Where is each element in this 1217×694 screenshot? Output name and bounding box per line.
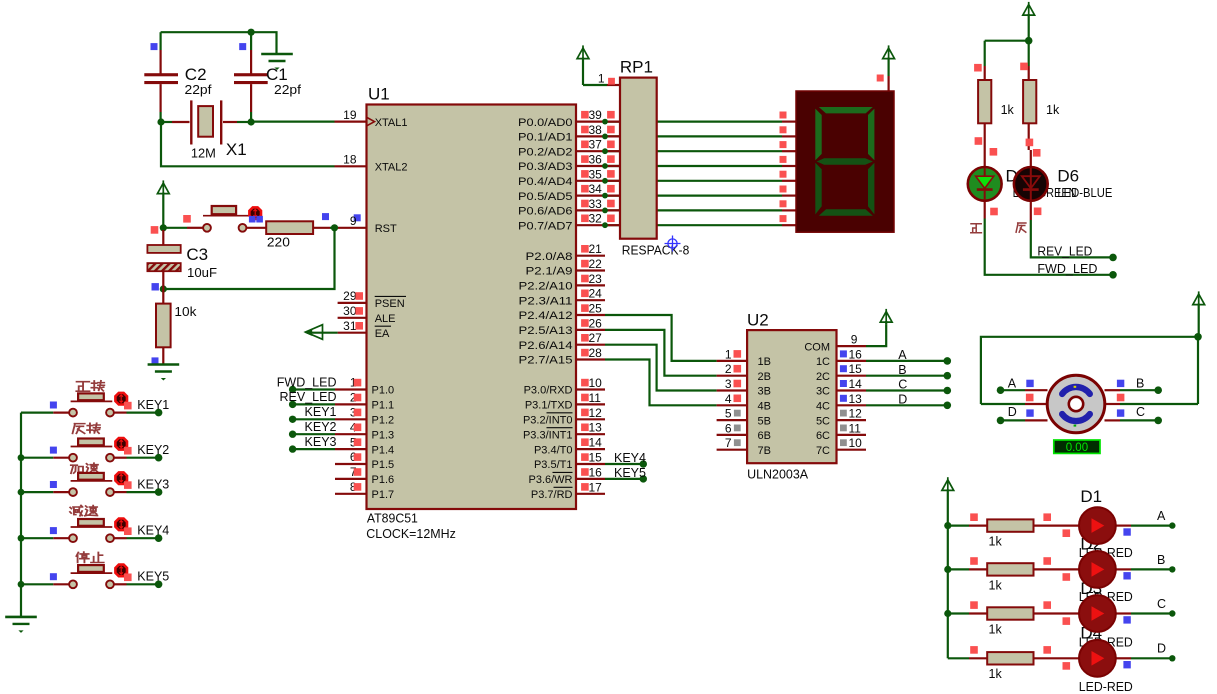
red marker KEY4 xyxy=(124,527,132,535)
svg-text:P2.6/A14: P2.6/A14 xyxy=(519,340,573,352)
svg-text:4C: 4C xyxy=(816,401,830,413)
svg-text:B: B xyxy=(1157,553,1165,567)
svg-text:12M: 12M xyxy=(191,147,216,161)
svg-text:KEY5: KEY5 xyxy=(614,466,646,480)
chip U1 body xyxy=(367,105,577,510)
svg-text:P2.4/A12: P2.4/A12 xyxy=(519,310,573,322)
label button 2 (chinese) xyxy=(73,424,85,434)
svg-text:U2: U2 xyxy=(747,311,769,330)
wire: motor common right xyxy=(1105,403,1120,405)
svg-text:14: 14 xyxy=(589,436,603,450)
chip U2 body xyxy=(747,330,836,463)
node: RST junction at C3 top xyxy=(160,224,167,231)
svg-text:P3.7/RD: P3.7/RD xyxy=(531,489,573,501)
7-segment digit xyxy=(819,107,873,113)
svg-text:EA: EA xyxy=(375,328,390,340)
svg-text:10: 10 xyxy=(589,376,603,390)
resistor 1k (left, D5) xyxy=(984,41,986,66)
blue marker row B xyxy=(1123,572,1130,579)
node: A wire end (motor) xyxy=(997,386,1005,394)
wires: P1.0-P1.4 net stubs xyxy=(293,388,335,390)
wire: LED to node A xyxy=(1116,524,1131,526)
svg-text:C3: C3 xyxy=(186,245,208,264)
wire: motor phase C xyxy=(1105,419,1121,421)
power symbol +5V (RP1) xyxy=(577,48,589,59)
svg-text:38: 38 xyxy=(589,123,603,137)
node: bus junction row B xyxy=(944,566,951,573)
svg-text:7C: 7C xyxy=(816,445,830,457)
pushbutton KEY4 xyxy=(21,537,53,539)
power symbol +5V (motor) xyxy=(1193,294,1205,305)
XTAL1 clock input mark xyxy=(367,118,375,126)
wire: P2.7 to U2 pin 4 xyxy=(605,360,717,406)
wire: motor phase D xyxy=(1025,419,1048,421)
node: P0.6 junction xyxy=(602,208,608,214)
node: P0.7 junction xyxy=(602,222,608,228)
svg-text:C: C xyxy=(1136,405,1145,419)
red marker reset button left pin xyxy=(183,215,191,223)
wire: RST junction down to C3 bottom xyxy=(163,228,334,289)
blue marker motor C xyxy=(1117,409,1124,416)
svg-text:15: 15 xyxy=(589,451,603,465)
svg-text:D6: D6 xyxy=(1057,166,1079,185)
label 正 (forward) xyxy=(971,224,982,233)
svg-text:2B: 2B xyxy=(758,371,771,383)
LED D1 (red) xyxy=(1079,507,1116,544)
svg-text:1k: 1k xyxy=(989,667,1003,681)
LED D3 (red) xyxy=(1079,595,1116,632)
wire: LED array supply bus xyxy=(947,494,949,658)
red marker D6 cathode xyxy=(1034,208,1042,216)
svg-text:KEY1: KEY1 xyxy=(305,405,337,419)
red marker RP1 pin1 xyxy=(608,78,615,85)
svg-text:P0.6/AD6: P0.6/AD6 xyxy=(518,206,573,218)
svg-text:KEY2: KEY2 xyxy=(305,420,337,434)
red marker KEY1 xyxy=(124,402,132,410)
node: B wire end (LED row) xyxy=(1169,566,1175,572)
blue marker motor D xyxy=(1026,409,1033,416)
blue marker C3 bottom xyxy=(152,283,159,290)
svg-text:22pf: 22pf xyxy=(274,83,302,97)
wire: U2 COM to +5V xyxy=(837,345,867,347)
svg-text:1C: 1C xyxy=(816,356,830,368)
svg-text:PSEN: PSEN xyxy=(375,298,405,310)
svg-text:16: 16 xyxy=(849,347,863,361)
ground (below 10k) xyxy=(148,363,180,366)
wire: EA terminal arrow xyxy=(338,332,367,334)
wire: +5V to LED resistors xyxy=(1023,5,1035,16)
reset button actuator icon xyxy=(249,207,261,219)
origin marker (blue crosshair) xyxy=(665,236,681,252)
svg-text:23: 23 xyxy=(589,272,603,286)
resistor R? 220 xyxy=(266,221,313,234)
svg-text:1: 1 xyxy=(598,72,605,86)
wire: LED to node D xyxy=(1116,657,1131,659)
svg-text:P1.5: P1.5 xyxy=(372,459,395,471)
node: P0.5 junction xyxy=(602,193,608,199)
power symbol +5V (display) xyxy=(883,48,895,59)
svg-text:XTAL2: XTAL2 xyxy=(375,162,408,174)
blue marker 10k bottom xyxy=(152,357,159,364)
svg-text:31: 31 xyxy=(343,319,357,333)
svg-text:11: 11 xyxy=(589,391,602,405)
wire: bus to R row A xyxy=(948,524,969,526)
svg-text:P3.4/T0: P3.4/T0 xyxy=(534,444,573,456)
blue marker C2 pin xyxy=(151,43,158,50)
red marker D5 cathode xyxy=(990,208,998,216)
wire: P2.4 to U2 pin 1 xyxy=(605,315,717,361)
svg-text:3: 3 xyxy=(725,377,732,391)
svg-text:P2.7/A15: P2.7/A15 xyxy=(519,355,573,367)
node: net KEY1 wire end xyxy=(289,416,296,423)
svg-text:CLOCK=12MHz: CLOCK=12MHz xyxy=(366,527,456,541)
svg-text:KEY4: KEY4 xyxy=(614,451,646,465)
svg-text:FWD_LED: FWD_LED xyxy=(1037,262,1097,276)
U2 left pin markers xyxy=(734,350,742,358)
node: A wire end xyxy=(944,357,952,365)
node: button bus junction 3 xyxy=(18,489,25,496)
blue marker row A xyxy=(1123,528,1130,535)
svg-text:P1.6: P1.6 xyxy=(372,474,395,486)
motor speed readout 0.00 xyxy=(1054,440,1100,453)
blue marker motor A xyxy=(1026,380,1033,387)
svg-text:13: 13 xyxy=(849,392,863,406)
node: net KEY3 wire end xyxy=(289,445,296,452)
node: P0.0 junction xyxy=(602,119,608,125)
wire: D5 cathode to FWD_LED xyxy=(985,219,1113,275)
svg-text:P3.0/RXD: P3.0/RXD xyxy=(524,385,573,397)
node: button bus junction 2 xyxy=(18,454,25,461)
U1 right pin markers xyxy=(581,111,589,119)
red markers row B xyxy=(970,557,978,565)
button KEY2 actuator icon xyxy=(115,438,127,450)
svg-text:32: 32 xyxy=(589,212,603,226)
label button 1 (chinese) xyxy=(76,382,89,392)
wire: U2 3C to node C xyxy=(837,389,867,391)
svg-text:C: C xyxy=(898,378,907,392)
svg-text:P2.0/A8: P2.0/A8 xyxy=(526,251,573,263)
wire: bus to R row D xyxy=(948,657,969,659)
svg-text:P1.3: P1.3 xyxy=(372,429,395,441)
svg-text:FWD_LED: FWD_LED xyxy=(277,375,337,389)
wire: bus to R row C xyxy=(948,612,969,614)
svg-text:15: 15 xyxy=(849,362,863,376)
stepper motor body xyxy=(1047,375,1105,433)
svg-text:0.00: 0.00 xyxy=(1066,442,1088,454)
node: A wire end (LED row) xyxy=(1169,522,1175,528)
svg-text:C2: C2 xyxy=(185,65,207,84)
svg-text:2: 2 xyxy=(725,362,732,376)
svg-text:25: 25 xyxy=(589,302,603,316)
U1 left pin markers xyxy=(355,292,363,300)
svg-text:LED-RED: LED-RED xyxy=(1079,680,1133,694)
svg-text:11: 11 xyxy=(849,421,862,435)
red marker KEY3 xyxy=(124,481,132,489)
svg-text:6C: 6C xyxy=(816,430,830,442)
ground (button bus) xyxy=(5,616,37,619)
blue marker KEY1 xyxy=(50,402,57,409)
U2 right pin markers xyxy=(840,350,847,357)
blue markers reset button xyxy=(249,216,256,223)
label button 3 (chinese) xyxy=(71,465,83,473)
svg-text:6: 6 xyxy=(725,421,732,435)
svg-text:X1: X1 xyxy=(226,140,247,159)
wire: P2.6 to U2 pin 3 xyxy=(605,345,717,391)
power symbol +5V (RST) xyxy=(157,183,169,194)
crystal X1 xyxy=(161,121,172,123)
resistor 1k row A xyxy=(987,519,1033,531)
red marker motor common L xyxy=(1026,394,1034,402)
svg-text:KEY2: KEY2 xyxy=(137,443,169,457)
svg-text:U1: U1 xyxy=(368,85,390,104)
red markers row D xyxy=(970,646,978,654)
red markers 1k left xyxy=(974,64,982,72)
wire: net KEY5 on P3.6 xyxy=(605,478,643,480)
svg-text:P3.3/INT1: P3.3/INT1 xyxy=(523,429,573,441)
wire: crystal to XTAL1 pin 19 xyxy=(251,120,334,122)
svg-text:KEY5: KEY5 xyxy=(137,570,169,584)
svg-text:1: 1 xyxy=(725,347,732,361)
node: crystal left junction xyxy=(157,118,164,125)
wire: U2 2C to node B xyxy=(837,375,867,377)
svg-text:1B: 1B xyxy=(758,356,771,368)
svg-text:5C: 5C xyxy=(816,415,830,427)
node: P0.3 junction xyxy=(602,163,608,169)
svg-text:D: D xyxy=(898,393,907,407)
red marker C3 top pin xyxy=(151,226,159,234)
svg-text:29: 29 xyxy=(343,289,357,303)
svg-text:P0.3/AD3: P0.3/AD3 xyxy=(518,161,573,173)
svg-text:10: 10 xyxy=(849,436,863,450)
wire: RP1 pin 1 xyxy=(607,84,620,86)
node: C wire end (LED row) xyxy=(1169,610,1175,616)
wire: C2 top to C1 top and ground xyxy=(161,32,277,53)
svg-text:9: 9 xyxy=(851,333,858,347)
red marker KEY5 xyxy=(124,574,132,582)
svg-text:22pf: 22pf xyxy=(185,83,213,97)
svg-text:P0.1/AD1: P0.1/AD1 xyxy=(518,132,573,144)
blue marker C1 pin xyxy=(239,43,246,50)
node: B wire end xyxy=(944,372,952,380)
svg-text:28: 28 xyxy=(589,346,603,360)
node: P0.1 junction xyxy=(602,134,608,140)
svg-text:18: 18 xyxy=(343,153,357,167)
blue marker KEY5 xyxy=(50,573,57,580)
svg-text:D: D xyxy=(1157,642,1166,656)
wire: motor phase B xyxy=(1105,389,1121,391)
node: C wire end xyxy=(944,387,952,395)
U1 left pin stubs xyxy=(338,302,367,304)
svg-text:7B: 7B xyxy=(758,445,771,457)
svg-text:C1: C1 xyxy=(266,65,288,84)
svg-text:ALE: ALE xyxy=(375,313,396,325)
display pin markers xyxy=(780,112,787,119)
power symbol +5V (U2 COM) xyxy=(880,312,892,323)
node: REV_LED wire end xyxy=(1109,254,1117,262)
svg-text:P1.1: P1.1 xyxy=(372,400,395,412)
svg-text:10uF: 10uF xyxy=(187,266,217,280)
node: net REV_LED wire end xyxy=(289,401,296,408)
svg-text:ULN2003A: ULN2003A xyxy=(747,468,809,482)
svg-text:P2.1/A9: P2.1/A9 xyxy=(526,266,573,278)
svg-text:3C: 3C xyxy=(816,386,830,398)
node: KEY5 wire end xyxy=(640,475,647,482)
wire: U2 1C to node A xyxy=(837,360,867,362)
wire: 220 to RST pin 9 xyxy=(313,227,330,229)
svg-text:P1.7: P1.7 xyxy=(372,489,395,501)
wire: R to LED row C xyxy=(1034,612,1080,614)
button KEY5 actuator icon xyxy=(115,565,127,577)
svg-text:P3.5/T1: P3.5/T1 xyxy=(534,459,573,471)
node: B wire end (motor) xyxy=(1154,386,1162,394)
svg-text:6B: 6B xyxy=(758,430,771,442)
svg-text:P3.2/INT0: P3.2/INT0 xyxy=(523,415,573,427)
svg-text:D: D xyxy=(1008,405,1017,419)
node: KEY3 wire end xyxy=(155,488,163,496)
svg-text:5: 5 xyxy=(725,407,732,421)
resistor 1k row C xyxy=(987,607,1033,619)
node: net FWD_LED wire end xyxy=(289,386,296,393)
svg-text:XTAL1: XTAL1 xyxy=(375,117,408,129)
wire: net KEY4 on P3.5 xyxy=(605,463,643,465)
node: D wire end (motor) xyxy=(997,417,1005,425)
blue marker KEY4 xyxy=(50,527,57,534)
wire: LED to node C xyxy=(1116,612,1131,614)
wire: bus to R row B xyxy=(948,568,969,570)
svg-text:KEY3: KEY3 xyxy=(137,477,169,491)
node: KEY1 wire end xyxy=(155,409,163,417)
svg-text:AT89C51: AT89C51 xyxy=(367,512,418,526)
wire: P2.5 to U2 pin 2 xyxy=(605,330,717,376)
node: net KEY2 wire end xyxy=(289,431,296,438)
svg-text:4B: 4B xyxy=(758,401,771,413)
svg-text:P0.5/AD5: P0.5/AD5 xyxy=(518,191,573,203)
node: crystal right junction xyxy=(248,118,255,125)
node: loop junction at +5V xyxy=(1194,333,1202,341)
red marker KEY2 xyxy=(124,447,132,455)
svg-text:P1.4: P1.4 xyxy=(372,444,395,456)
svg-text:33: 33 xyxy=(589,197,603,211)
wire: D6 cathode to REV_LED xyxy=(1031,220,1113,257)
resistor pack RP1 body xyxy=(620,78,657,239)
svg-text:A: A xyxy=(898,348,907,362)
svg-text:A: A xyxy=(1157,509,1166,523)
svg-text:9: 9 xyxy=(350,214,357,228)
svg-text:P0.0/AD0: P0.0/AD0 xyxy=(518,117,573,129)
svg-text:39: 39 xyxy=(589,108,603,122)
svg-text:B: B xyxy=(1136,377,1144,391)
wire: motor common left xyxy=(1025,403,1047,405)
wire: button supply bus xyxy=(20,413,22,617)
button KEY1 actuator icon xyxy=(115,393,127,405)
svg-text:P0.7/AD7: P0.7/AD7 xyxy=(518,220,573,232)
wire: R to LED row B xyxy=(1034,568,1080,570)
svg-text:1k: 1k xyxy=(1001,103,1015,117)
resistor 1k row D xyxy=(987,652,1033,664)
reset pushbutton xyxy=(163,227,187,229)
LED D2 (red) xyxy=(1079,551,1116,588)
wire: U2 4C to node D xyxy=(837,404,867,406)
svg-text:REV_LED: REV_LED xyxy=(1037,245,1092,259)
svg-text:RESPACK-8: RESPACK-8 xyxy=(622,244,690,258)
label button 4 (chinese) xyxy=(70,505,83,515)
node: D wire end xyxy=(944,402,952,410)
7-segment display body xyxy=(796,91,894,232)
label 反 (reverse) xyxy=(1016,223,1026,232)
node: D wire end (LED row) xyxy=(1169,655,1175,661)
svg-text:3B: 3B xyxy=(758,386,771,398)
button KEY4 actuator icon xyxy=(115,519,127,531)
U2 left pin stubs 5B-7B xyxy=(717,419,748,421)
svg-text:5B: 5B xyxy=(758,415,771,427)
svg-text:16: 16 xyxy=(589,465,603,479)
svg-text:19: 19 xyxy=(343,108,357,122)
svg-text:24: 24 xyxy=(589,287,603,301)
svg-text:1k: 1k xyxy=(1046,103,1060,117)
LED D6 (blue, off) xyxy=(1030,150,1032,166)
svg-text:26: 26 xyxy=(589,316,603,330)
pushbutton KEY5 xyxy=(21,583,53,585)
pushbutton KEY2 xyxy=(21,457,53,459)
svg-text:D1: D1 xyxy=(1080,487,1102,506)
svg-text:P0.2/AD2: P0.2/AD2 xyxy=(518,146,573,158)
node: P0.2 junction xyxy=(602,148,608,154)
pushbutton KEY1 xyxy=(21,412,53,414)
red markers row A xyxy=(970,513,978,521)
wire: R to LED row D xyxy=(1034,657,1080,659)
svg-text:30: 30 xyxy=(343,304,357,318)
display pin stubs xyxy=(782,120,796,122)
svg-text:P2.3/A11: P2.3/A11 xyxy=(519,295,573,307)
power symbol +5V (LED array) xyxy=(942,480,954,491)
resistor 10k (vertical) xyxy=(162,289,164,304)
svg-text:1k: 1k xyxy=(989,578,1003,592)
U2 right pin stubs 5C-7C xyxy=(837,419,867,421)
svg-text:KEY4: KEY4 xyxy=(137,523,169,537)
svg-text:1k: 1k xyxy=(989,622,1003,636)
svg-text:10k: 10k xyxy=(174,305,197,319)
svg-text:P0.4/AD4: P0.4/AD4 xyxy=(518,176,573,188)
svg-text:COM: COM xyxy=(804,341,830,353)
blue marker row C xyxy=(1123,616,1130,623)
svg-text:21: 21 xyxy=(589,242,603,256)
node: bus junction row C xyxy=(944,610,951,617)
wire: C2 bottom to XTAL2 pin 18 xyxy=(161,122,335,166)
node: button bus junction 5 xyxy=(18,581,25,588)
blue marker right of pin 9 xyxy=(354,214,361,221)
U1 right pin stubs xyxy=(576,120,620,122)
wire bus: P0.0-P0.7 to display (behind RP1) xyxy=(605,120,782,122)
svg-text:RP1: RP1 xyxy=(620,58,653,77)
svg-text:C: C xyxy=(1157,597,1166,611)
svg-text:220: 220 xyxy=(267,235,290,249)
LED D4 (red) xyxy=(1079,640,1116,677)
svg-text:P1.2: P1.2 xyxy=(372,415,395,427)
blue marker motor B xyxy=(1117,380,1124,387)
wire: motor common loop xyxy=(981,337,1198,404)
node: LED branch junction xyxy=(1025,37,1033,45)
capacitor C1 xyxy=(250,32,252,50)
node: KEY4 wire end xyxy=(155,534,163,542)
button KEY3 actuator icon xyxy=(115,472,127,484)
svg-text:P1.0: P1.0 xyxy=(372,385,395,397)
svg-text:P3.1/TXD: P3.1/TXD xyxy=(525,400,573,412)
capacitor C3 (polarized) xyxy=(162,230,164,245)
svg-text:RST: RST xyxy=(375,223,397,235)
node: FWD_LED wire end xyxy=(1109,271,1117,279)
svg-text:P2.5/A13: P2.5/A13 xyxy=(519,325,573,337)
resistor 1k row B xyxy=(987,563,1033,575)
